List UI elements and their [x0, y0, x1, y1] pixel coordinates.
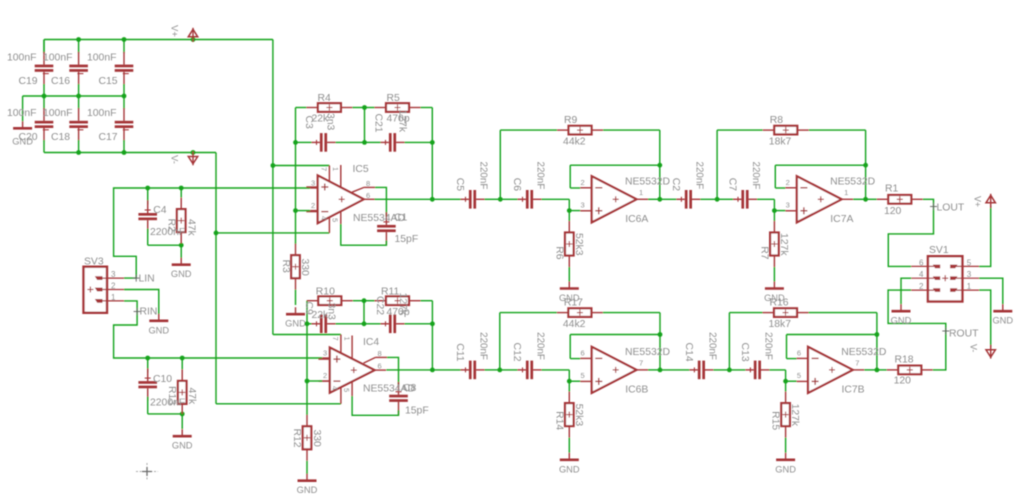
svg-text:GND: GND [12, 136, 33, 146]
svg-text:6: 6 [366, 191, 370, 200]
svg-text:100nF: 100nF [87, 52, 116, 63]
svg-text:IC4: IC4 [363, 337, 379, 348]
svg-text:V-: V- [169, 155, 180, 164]
svg-text:2: 2 [786, 178, 790, 187]
svg-text:120: 120 [894, 376, 912, 387]
svg-text:C17: C17 [99, 132, 118, 143]
svg-text:330: 330 [299, 259, 310, 277]
svg-text:8: 8 [366, 179, 370, 188]
svg-text:3: 3 [786, 200, 790, 209]
svg-text:52k3: 52k3 [573, 404, 584, 427]
svg-text:220nF: 220nF [693, 162, 704, 190]
svg-text:5: 5 [331, 218, 340, 222]
svg-text:5: 5 [581, 371, 585, 380]
svg-text:R1: R1 [885, 184, 899, 195]
svg-text:4: 4 [320, 216, 329, 220]
svg-text:100nF: 100nF [43, 52, 72, 63]
svg-text:R12: R12 [291, 429, 302, 448]
svg-text:ROUT: ROUT [949, 329, 979, 340]
svg-text:2: 2 [581, 178, 585, 187]
svg-text:GND: GND [559, 464, 580, 474]
svg-text:1: 1 [967, 282, 972, 291]
svg-text:V-: V- [969, 344, 979, 352]
svg-text:GND: GND [297, 485, 318, 495]
svg-text:C18: C18 [51, 132, 70, 143]
svg-text:IC6A: IC6A [625, 214, 648, 225]
svg-text:47k: 47k [186, 388, 197, 406]
svg-text:7: 7 [320, 167, 329, 171]
svg-text:R15: R15 [770, 411, 781, 430]
svg-text:R8: R8 [770, 115, 784, 126]
svg-text:1: 1 [844, 188, 848, 197]
svg-text:NE5532D: NE5532D [830, 177, 875, 188]
svg-text:1: 1 [111, 293, 116, 302]
svg-text:C2: C2 [670, 178, 681, 192]
svg-text:220nF: 220nF [750, 162, 761, 190]
svg-text:V+: V+ [973, 196, 983, 207]
svg-text:V+: V+ [169, 25, 180, 37]
svg-text:3: 3 [967, 270, 972, 279]
svg-text:127k: 127k [789, 404, 800, 427]
svg-text:C22: C22 [374, 296, 385, 315]
svg-text:R2: R2 [166, 219, 177, 233]
svg-text:R5: R5 [387, 93, 401, 104]
svg-text:R4: R4 [318, 93, 332, 104]
svg-text:18k7: 18k7 [769, 319, 792, 330]
svg-text:52k3: 52k3 [573, 233, 584, 256]
svg-text:R3: R3 [280, 260, 291, 274]
svg-text:C8: C8 [403, 383, 417, 394]
svg-text:3: 3 [311, 178, 315, 187]
svg-text:127k: 127k [397, 293, 408, 316]
svg-text:220nF: 220nF [535, 162, 546, 190]
svg-text:GND: GND [172, 441, 193, 451]
svg-text:1: 1 [343, 337, 352, 341]
svg-text:GND: GND [891, 316, 912, 326]
svg-text:2: 2 [919, 282, 924, 291]
svg-text:100nF: 100nF [7, 52, 36, 63]
svg-text:LIN: LIN [139, 274, 155, 285]
svg-text:3n3: 3n3 [325, 113, 336, 131]
svg-text:NE5532D: NE5532D [625, 347, 670, 358]
svg-text:7: 7 [855, 358, 859, 367]
svg-text:44k2: 44k2 [563, 319, 586, 330]
svg-text:IC6B: IC6B [625, 385, 648, 396]
svg-text:C9: C9 [303, 302, 314, 316]
svg-text:GND: GND [992, 316, 1013, 326]
svg-text:330: 330 [311, 430, 322, 448]
svg-text:3: 3 [111, 270, 116, 279]
svg-text:C1: C1 [394, 213, 408, 224]
svg-text:127k: 127k [397, 110, 408, 133]
svg-text:C16: C16 [51, 76, 70, 87]
svg-text:NE5532D: NE5532D [841, 347, 886, 358]
svg-text:220nF: 220nF [478, 162, 489, 190]
svg-text:C5: C5 [454, 178, 465, 192]
svg-text:15pF: 15pF [405, 406, 429, 417]
svg-text:127k: 127k [778, 233, 789, 256]
svg-text:C13: C13 [739, 343, 750, 362]
svg-text:IC7A: IC7A [830, 214, 853, 225]
svg-text:2: 2 [111, 281, 116, 290]
svg-text:6: 6 [581, 348, 585, 357]
svg-text:GND: GND [285, 319, 306, 329]
svg-text:6: 6 [378, 361, 382, 370]
svg-text:RIN: RIN [140, 307, 158, 318]
svg-text:15pF: 15pF [395, 234, 419, 245]
svg-text:SV3: SV3 [84, 257, 104, 268]
svg-text:100nF: 100nF [43, 108, 72, 119]
svg-text:C6: C6 [511, 178, 522, 192]
svg-text:2: 2 [323, 371, 327, 380]
svg-text:4: 4 [919, 270, 924, 279]
svg-text:3: 3 [323, 348, 327, 357]
svg-text:R10: R10 [316, 287, 335, 298]
svg-text:3n3: 3n3 [326, 303, 337, 321]
svg-text:47k: 47k [186, 219, 197, 237]
svg-text:R17: R17 [564, 297, 583, 308]
svg-text:220nF: 220nF [478, 332, 489, 360]
svg-text:C11: C11 [454, 343, 465, 362]
svg-text:C21: C21 [373, 114, 384, 133]
svg-text:5: 5 [797, 371, 801, 380]
svg-text:C12: C12 [511, 343, 522, 362]
svg-text:5: 5 [342, 388, 351, 392]
svg-text:C4: C4 [153, 205, 167, 216]
svg-text:6: 6 [797, 348, 801, 357]
svg-text:GND: GND [171, 269, 192, 279]
svg-text:4: 4 [331, 386, 340, 390]
svg-text:IC5: IC5 [353, 164, 369, 175]
svg-text:6: 6 [919, 258, 924, 267]
svg-text:R6: R6 [553, 246, 564, 260]
svg-text:C15: C15 [99, 76, 118, 87]
svg-text:1: 1 [331, 167, 340, 171]
svg-text:C14: C14 [683, 343, 694, 362]
svg-text:R16: R16 [770, 297, 789, 308]
svg-text:44k2: 44k2 [563, 137, 586, 148]
svg-text:C3: C3 [303, 116, 314, 130]
svg-text:C19: C19 [19, 76, 38, 87]
svg-text:C10: C10 [153, 374, 172, 385]
svg-text:7: 7 [331, 337, 340, 341]
svg-text:NE5532D: NE5532D [625, 177, 670, 188]
svg-text:R9: R9 [564, 115, 578, 126]
svg-text:220nF: 220nF [535, 332, 546, 360]
svg-text:R7: R7 [758, 246, 769, 260]
svg-text:IC7B: IC7B [842, 385, 865, 396]
svg-text:220nF: 220nF [762, 332, 773, 360]
svg-text:2: 2 [311, 201, 315, 210]
svg-text:8: 8 [378, 349, 382, 358]
svg-text:120: 120 [884, 206, 902, 217]
svg-text:R14: R14 [553, 411, 564, 430]
svg-text:GND: GND [775, 464, 796, 474]
svg-text:GND: GND [148, 325, 169, 335]
svg-text:7: 7 [639, 358, 643, 367]
svg-text:100nF: 100nF [7, 108, 36, 119]
svg-text:220nF: 220nF [706, 332, 717, 360]
svg-text:R18: R18 [895, 355, 914, 366]
svg-text:5: 5 [967, 258, 972, 267]
svg-text:1: 1 [639, 188, 643, 197]
svg-text:LOUT: LOUT [937, 203, 965, 214]
svg-text:SV1: SV1 [929, 245, 949, 256]
svg-text:18k7: 18k7 [769, 137, 792, 148]
svg-text:100nF: 100nF [87, 108, 116, 119]
svg-text:R13: R13 [166, 386, 177, 405]
svg-text:3: 3 [581, 200, 585, 209]
svg-text:C7: C7 [727, 178, 738, 192]
